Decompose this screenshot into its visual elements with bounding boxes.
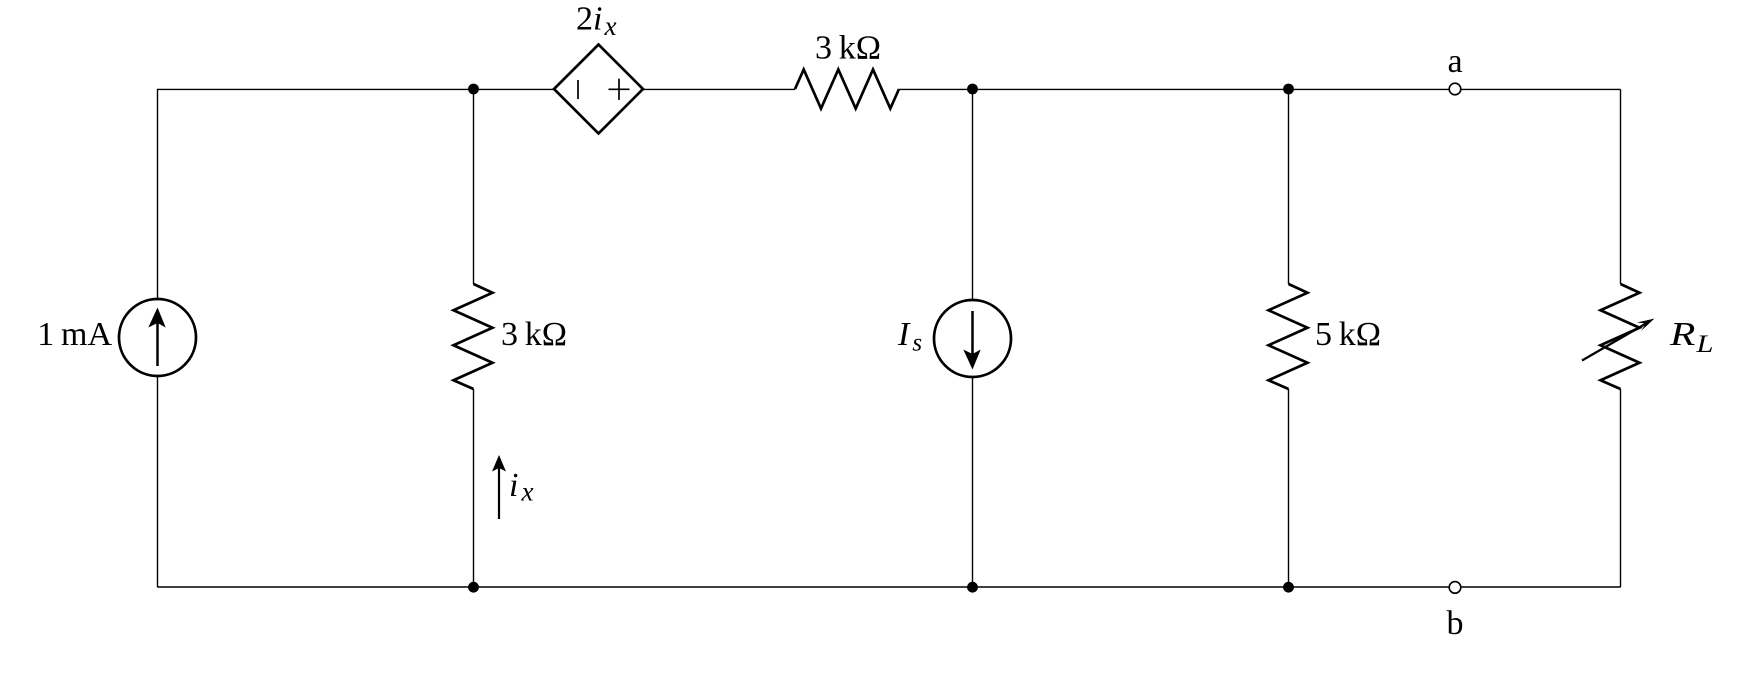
svg-text:1 mA: 1 mA <box>37 316 112 353</box>
current arrow ix <box>492 455 506 519</box>
wire: middle branch x=473.5 lower <box>473 389 475 587</box>
wire: top rail left segment (left rail top corner to diamond) <box>158 89 555 299</box>
terminal a <box>1449 83 1461 95</box>
wire: right rail top <box>1620 89 1622 284</box>
variable resistor RL <box>1582 284 1655 389</box>
node dot bottom of Is branch <box>967 582 978 593</box>
wire: right rail bottom <box>1620 389 1622 587</box>
svg-text:5 kΩ: 5 kΩ <box>1315 316 1381 353</box>
wire: 5k branch lower <box>1288 389 1290 587</box>
node dot top of 3k branch <box>468 84 479 95</box>
svg-text:3 kΩ: 3 kΩ <box>501 316 567 353</box>
wire: Is branch upper <box>972 89 974 300</box>
node dot top of 5k branch <box>1283 84 1294 95</box>
svg-text:a: a <box>1447 43 1462 80</box>
wire: Is branch lower <box>972 377 974 587</box>
wire: 3k resistor to top-right corner <box>899 88 1621 90</box>
wire: bottom rail <box>158 586 1621 588</box>
wire: left rail bottom <box>157 376 159 587</box>
current source Is <box>934 300 1011 377</box>
terminal b <box>1449 582 1461 594</box>
node dot bottom of 5k branch <box>1283 582 1294 593</box>
current source I1 (1 mA) <box>119 299 196 376</box>
resistor R3 5 kOhm <box>1269 284 1308 389</box>
resistor R1 3 kOhm vertical <box>454 284 493 389</box>
node dot top of Is branch <box>967 84 978 95</box>
svg-text:b: b <box>1447 605 1464 642</box>
resistor R2 3 kOhm horizontal <box>795 70 899 109</box>
wire: middle branch x=473.5 upper <box>473 89 475 284</box>
wire: 5k branch upper <box>1288 89 1290 284</box>
wire: diamond to 3k resistor <box>643 88 795 90</box>
svg-text:3 kΩ: 3 kΩ <box>815 30 881 67</box>
dependent voltage source 2ix (diamond) <box>554 45 643 134</box>
node dot bottom of 3k branch <box>468 582 479 593</box>
